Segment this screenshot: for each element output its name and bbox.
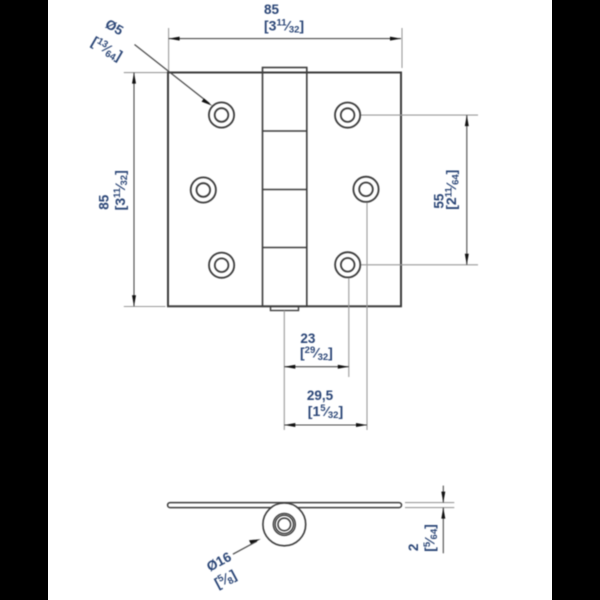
dimension 29.5: label (307, 388, 343, 421)
svg-text:[13⁄64]: [13⁄64] (88, 33, 126, 65)
dimension 23: dimension line (284, 366, 349, 368)
leader diameter 5: arrowhead (202, 98, 213, 105)
side view leaf bar (168, 503, 402, 508)
svg-text:[15⁄32]: [15⁄32] (308, 403, 343, 421)
dimension 85 left: arrowheads (132, 73, 136, 307)
dimension 2: label (rotated) (406, 544, 421, 552)
label diameter 5 (rotated) (103, 16, 127, 38)
side view pin hole (278, 518, 291, 531)
dimension 85 top: extension lines (169, 28, 402, 72)
left black bar (0, 0, 48, 600)
svg-text:[5⁄64]: [5⁄64] (422, 524, 440, 552)
svg-text:[29⁄32]: [29⁄32] (300, 345, 333, 363)
dimension 85 left: label (rotated) (97, 194, 112, 210)
hinge pin tip (271, 306, 299, 310)
dimension 29.5: arrowheads (284, 423, 367, 427)
dimension 29.5: dimension line (284, 424, 367, 426)
hinge leaf outline (168, 73, 401, 307)
screw hole bottom-right (335, 252, 360, 277)
side view washer ring (273, 513, 295, 535)
dimension 85 left: extension lines (124, 73, 167, 307)
screw hole bottom-left (209, 253, 234, 278)
leader diameter 16: arrowhead (249, 539, 261, 544)
dimension 85 top: label (264, 2, 304, 36)
svg-text:[311⁄32]: [311⁄32] (112, 170, 130, 210)
dimension 85 left: dimension line (133, 73, 135, 307)
dimension 23: label (300, 331, 333, 363)
dimension 55 right: dimension line (466, 115, 468, 265)
screw hole middle-left (191, 177, 216, 202)
side view knuckle outer circle (263, 503, 306, 546)
leader diameter 16 (233, 541, 257, 554)
dimension 85 top: dimension line (169, 38, 401, 40)
svg-text:[311⁄32]: [311⁄32] (264, 17, 304, 35)
screw hole top-left (209, 102, 234, 127)
dimension 23: arrowheads (284, 365, 349, 369)
screw hole top-right (335, 103, 360, 128)
dimension 55 right: arrowheads (465, 115, 469, 265)
svg-text:[211⁄64]: [211⁄64] (443, 170, 461, 210)
dimension 55 right: label (rotated) (431, 193, 446, 209)
dimension 2: dimension lines (442, 486, 444, 554)
svg-text:29,5: 29,5 (307, 388, 334, 403)
dimension 55 right: extension lines (361, 115, 478, 265)
screw hole middle-right (353, 177, 378, 202)
dimension 23: extension lines (284, 278, 349, 430)
dimension 29.5: extension line right (366, 203, 368, 431)
svg-text:2: 2 (406, 544, 421, 552)
svg-text:85: 85 (264, 2, 280, 17)
dimension 2: arrowheads (441, 492, 445, 519)
dimension 2: extension lines (405, 503, 454, 508)
svg-text:85: 85 (97, 194, 112, 210)
right black bar (552, 0, 600, 600)
leader diameter 5 (135, 45, 210, 104)
label diameter 16 (rotated) (204, 549, 234, 574)
dimension 85 top: arrowheads (169, 37, 401, 41)
svg-text:Ø5: Ø5 (103, 16, 127, 38)
hinge barrel (263, 68, 307, 307)
